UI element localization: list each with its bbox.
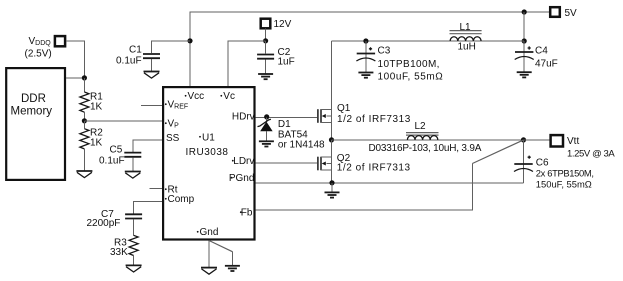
svg-text:33K: 33K (110, 247, 128, 258)
capacitor C1 (116, 41, 190, 72)
wire Rt stub (149, 188, 162, 190)
terminal 12V (261, 19, 292, 30)
svg-text:2x 6TPB150M,: 2x 6TPB150M, (536, 168, 594, 179)
capacitor C5 (99, 145, 141, 172)
ground (earth) below IC (225, 266, 240, 271)
transistor Q1 (318, 103, 411, 125)
terminal Vtt (524, 135, 616, 159)
svg-text:U1: U1 (202, 132, 215, 143)
svg-text:Vcc: Vcc (188, 91, 205, 102)
ground (signal) below C1 (144, 72, 160, 79)
svg-text:100uF, 55mΩ: 100uF, 55mΩ (378, 72, 444, 83)
svg-text:Q1: Q1 (337, 103, 351, 114)
svg-text:SS: SS (166, 133, 180, 144)
svg-text:1K: 1K (90, 102, 103, 113)
node I junction (switch node) (329, 137, 334, 142)
wire node J to ground (331, 183, 333, 192)
svg-text:Memory: Memory (11, 106, 53, 118)
inductor L1 (450, 22, 482, 53)
capacitor C3 (356, 41, 443, 83)
wire Q2 source down (331, 170, 333, 183)
svg-text:D1: D1 (278, 119, 291, 130)
svg-text:Fb: Fb (241, 208, 253, 219)
resistor R3 (110, 235, 138, 265)
svg-text:C3: C3 (378, 46, 391, 57)
ground (earth) below C4 (517, 72, 532, 77)
svg-text:IRU3038: IRU3038 (186, 147, 229, 158)
node B junction (R1/R2/VP) (82, 118, 87, 123)
node H junction (D1 tap) (264, 114, 269, 119)
capacitor C4 (515, 41, 558, 72)
node C1 tap junction (187, 38, 192, 43)
svg-text:Vtt: Vtt (567, 136, 579, 147)
svg-text:0.1uF: 0.1uF (116, 56, 142, 67)
terminal VDDQ (25, 36, 66, 60)
wire node D to Vc pin (228, 41, 266, 86)
svg-text:LDrv: LDrv (233, 156, 254, 167)
wire Q1 drain riser (331, 41, 333, 110)
wire Q2 drain riser (331, 140, 333, 157)
diode D1 (258, 118, 326, 151)
svg-text:DDR: DDR (21, 93, 46, 105)
wire VREF stub (141, 104, 162, 106)
wire HDrv to Q1 gate (256, 117, 318, 119)
wire node B to VP pin (84, 120, 162, 122)
svg-text:C4: C4 (535, 46, 548, 57)
DDR Memory block (6, 68, 65, 180)
wire LDrv to Q2 gate (256, 162, 318, 164)
svg-text:1/2 of IRF7313: 1/2 of IRF7313 (337, 163, 411, 174)
ground (earth) below D1 (259, 141, 274, 146)
svg-text:or 1N4148: or 1N4148 (278, 140, 325, 151)
capacitor C7 (87, 209, 143, 235)
svg-text:1/2 of IRF7313: 1/2 of IRF7313 (337, 114, 411, 125)
svg-text:5V: 5V (565, 8, 578, 19)
terminal 5V (550, 7, 577, 19)
wire Q1 source to node I (331, 122, 333, 140)
svg-text:PGnd: PGnd (229, 173, 255, 184)
transistor Q2 (318, 153, 411, 174)
svg-text:1.25V @ 3A: 1.25V @ 3A (567, 149, 615, 160)
svg-text:D03316P-103, 10uH, 3.9A: D03316P-103, 10uH, 3.9A (369, 143, 482, 154)
svg-text:HDrv: HDrv (232, 111, 255, 122)
node D junction (263, 38, 268, 43)
node F junction (input rail / C4) (522, 38, 527, 43)
wire top 5V rail (190, 12, 549, 86)
ground (signal) below IC (201, 268, 217, 275)
svg-text:1K: 1K (90, 138, 103, 149)
svg-text:12V: 12V (274, 19, 292, 30)
wire switch node to Vtt node (332, 139, 524, 141)
svg-text:C1: C1 (129, 45, 142, 56)
wire VDDQ to node A (66, 41, 84, 78)
wire DDR to node A (66, 77, 84, 79)
node J junction (Q2 source / PGnd) (329, 180, 334, 185)
svg-text:Gnd: Gnd (200, 227, 219, 238)
svg-text:150uF, 55mΩ: 150uF, 55mΩ (536, 179, 592, 190)
wire PGnd rail (256, 182, 524, 184)
ground (signal) below C5 (125, 172, 141, 179)
svg-text:10TPB100M,: 10TPB100M, (378, 59, 440, 70)
svg-text:L1: L1 (460, 22, 472, 33)
node A junction (82, 75, 87, 80)
svg-text:Comp: Comp (168, 194, 195, 205)
svg-text:2200pF: 2200pF (87, 218, 121, 229)
node K junction (Vtt) (521, 137, 526, 142)
inductor L2 (369, 121, 482, 154)
ground (signal) below R3 (126, 265, 142, 272)
svg-text:0.1uF: 0.1uF (99, 156, 125, 167)
wire 5V riser (523, 12, 525, 41)
resistor R1 (80, 78, 103, 121)
node G junction (C3 tap) (363, 38, 368, 43)
svg-text:Vc: Vc (223, 91, 235, 102)
IC U1 IRU3038 (163, 87, 255, 239)
wire Comp pin to C7 (134, 201, 162, 213)
svg-text:1uF: 1uF (278, 57, 295, 68)
svg-text:1uH: 1uH (458, 42, 476, 53)
ground (earth) below C2 (258, 74, 273, 79)
resistor R2 (80, 121, 103, 171)
wire IC Gnd down (208, 241, 210, 268)
svg-text:C5: C5 (110, 145, 123, 156)
capacitor C6 (514, 140, 594, 190)
svg-text:(2.5V): (2.5V) (25, 49, 52, 60)
wire Fb feedback (256, 164, 473, 211)
svg-text:47uF: 47uF (535, 59, 558, 70)
wire 12V down to node D (265, 28, 267, 41)
node E junction (5V rail to C4 riser) (522, 9, 527, 14)
ground (earth) below Q2 (325, 192, 340, 197)
capacitor C2 (257, 41, 295, 74)
wire IC Gnd slant to earth ground (209, 241, 232, 252)
wire SS pin to C5 (133, 140, 162, 152)
svg-text:L2: L2 (415, 121, 427, 132)
ground (signal) below R2 (76, 171, 92, 178)
ground (earth) below C3 (358, 73, 373, 78)
wire input rail (332, 40, 525, 42)
